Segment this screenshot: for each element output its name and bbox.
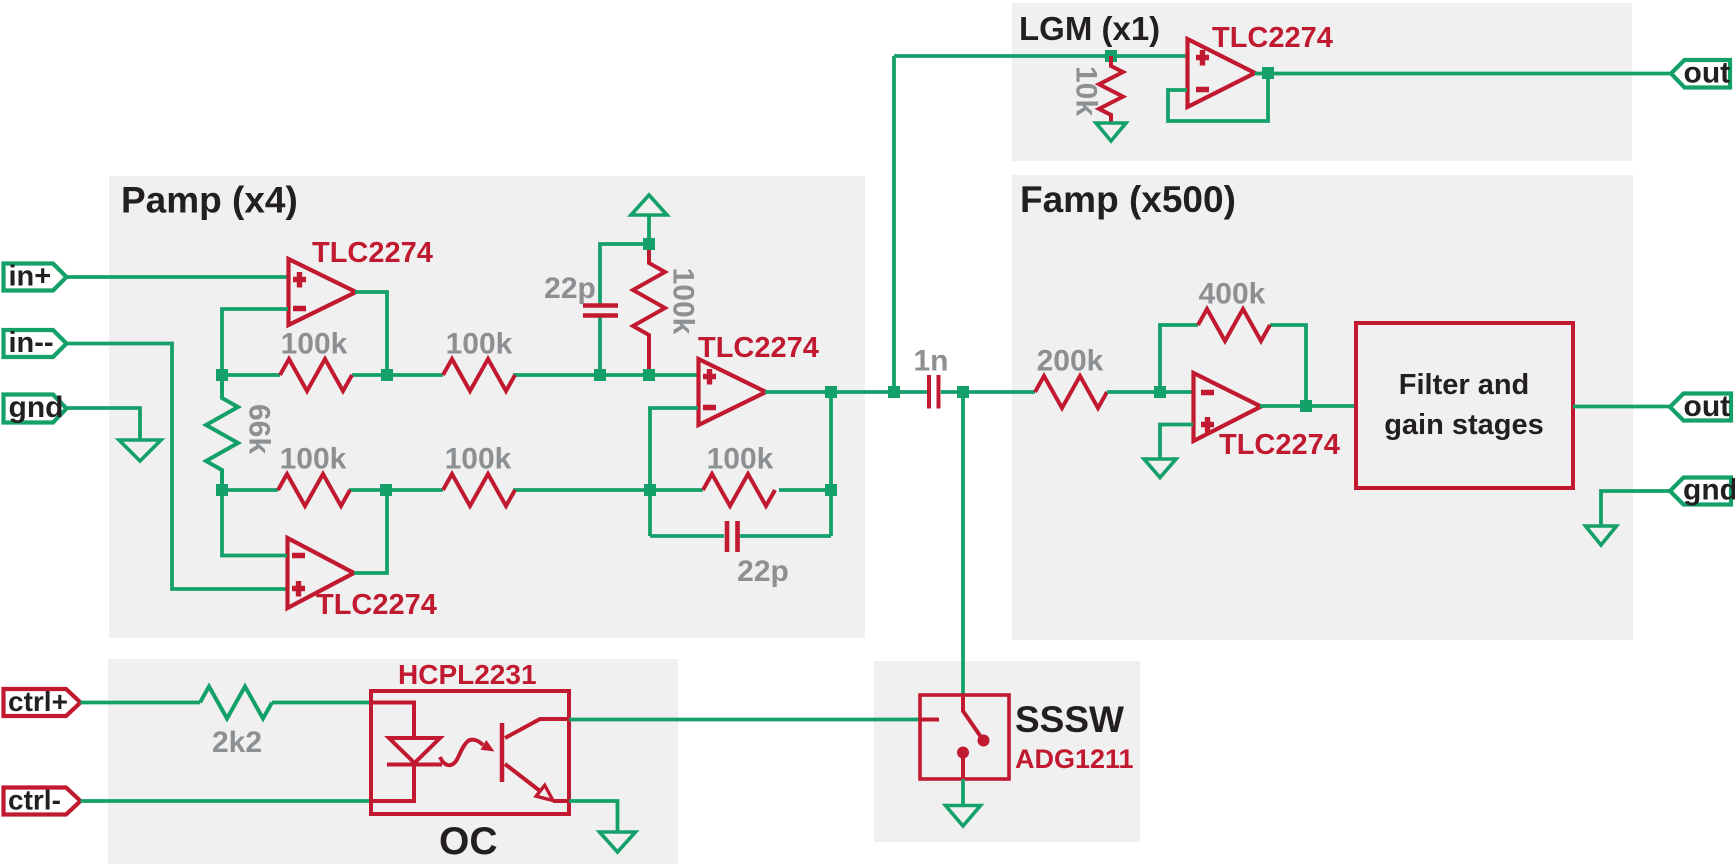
op-amp U1 TLC2274 (top) [289,259,357,325]
wire filter box to out port [1573,405,1670,409]
wire U4 feedback [1168,73,1268,121]
ground symbol (OC) [600,832,636,852]
resistor 400k [1198,309,1270,341]
svg-text:100k: 100k [667,268,700,335]
OC block background [108,659,678,864]
LGM block background [1012,3,1632,161]
junction top row / cap [594,369,606,381]
svg-text:HCPL2231: HCPL2231 [398,659,537,690]
svg-text:Famp (x500): Famp (x500) [1020,179,1236,220]
ground symbol (SSSW) [946,806,981,827]
ground symbol (U5) [1144,459,1176,478]
wire OC emitter to ground [569,801,618,833]
light arrow squiggle [440,740,495,766]
ground symbol (LGM) [1096,123,1126,141]
SSSW block background [874,661,1140,842]
op-amp U3 TLC2274 (bottom) [288,538,355,608]
svg-text:Pamp (x4): Pamp (x4) [121,180,298,221]
svg-text:ctrl+: ctrl+ [8,686,68,717]
op-amp U5 TLC2274 (Famp) [1194,373,1262,441]
junction after 1n [957,386,969,398]
wire ctrl- to OC [81,799,374,803]
svg-text:100k: 100k [445,443,512,476]
wire U5 output [1260,404,1356,408]
op-amp U4 TLC2274 (LGM) [1188,39,1256,107]
junction U2 output [825,386,837,398]
ground symbol (right gnd) [1586,526,1617,545]
Pamp block background [109,176,865,638]
wire gnd port to ground [67,408,141,441]
wire U2 - input [650,408,698,536]
junction top row / resistor [643,369,655,381]
switch contact dot (bottom) [957,747,969,759]
svg-text:100k: 100k [281,328,348,361]
switch SSSW box [920,695,1009,779]
Famp block background [1012,175,1633,640]
svg-text:100k: 100k [280,443,347,476]
wire U3 - input [222,490,287,556]
svg-text:in+: in+ [9,261,52,293]
junction feedback right [825,484,837,496]
filter and gain stages box [1356,323,1573,488]
capacitor 22p (vertical branch) [583,244,649,375]
svg-text:out: out [1684,57,1731,90]
resistor 66k (green, vertical) [206,375,238,490]
port out (right) [1670,390,1731,423]
resistor 100k (feedback) [703,474,775,506]
wire U2 output [765,390,927,394]
svg-text:66k: 66k [243,404,276,454]
svg-text:400k: 400k [1199,278,1266,311]
port ctrl- [4,785,81,816]
LED diode [387,738,442,765]
svg-text:2k2: 2k2 [212,726,262,759]
svg-text:200k: 200k [1037,345,1104,378]
svg-text:gain stages: gain stages [1384,409,1544,441]
ground symbol (left gnd port) [119,440,161,461]
supply arrow [631,195,667,215]
port in+ [4,261,67,293]
wire bottom row [222,488,831,492]
wire U1 - input [222,309,288,375]
wire in+ to U1 [67,275,289,279]
resistor 100k (bottom row right) [443,474,515,506]
svg-text:100k: 100k [707,443,774,476]
wire SSSW to ground [961,779,965,806]
wire U4 output to out port [1255,72,1671,76]
wire OC collector output to SSSW [569,718,921,722]
switch bottom lead [961,755,965,779]
Famp: wire feedback top [1160,325,1306,406]
wire ctrl+ to 2k2 [81,701,201,705]
LGM: wire input row [894,54,1187,58]
svg-text:ctrl-: ctrl- [8,785,61,816]
switch contact dot (arm) [978,735,990,747]
resistor 100k (bottom row left) [278,474,350,506]
svg-text:LGM (x1): LGM (x1) [1019,10,1160,47]
junction bottom row U3 out [380,484,392,496]
resistor 100k (vertical) [633,246,665,375]
wire gnd port to ground [1601,491,1670,526]
switch arm [963,696,981,737]
junction feedback left [644,484,656,496]
svg-text:10k: 10k [1070,66,1103,116]
wire LGM drop vertical [892,56,896,392]
optocoupler HCPL2231 box [371,691,569,814]
svg-text:gnd: gnd [9,391,64,424]
svg-text:TLC2274: TLC2274 [316,589,437,621]
junction supply tee [643,238,655,250]
junction main line / LGM drop [888,386,900,398]
wire U1 output [355,292,387,375]
wire SSSW drop vertical [961,392,965,695]
junction bottom row left [216,484,228,496]
port ctrl+ [4,686,81,717]
wire feedback right vertical [829,392,833,536]
svg-text:TLC2274: TLC2274 [698,332,819,364]
wire in-- to U3 + input [67,344,288,590]
wire U3 output [354,490,387,573]
svg-text:in--: in-- [9,327,54,359]
junction U4 output [1262,67,1274,79]
wire 2k2 to OC [272,701,373,705]
wire U5 + input to ground [1160,425,1193,460]
LED anode wire [371,703,414,739]
svg-text:gnd: gnd [1683,474,1735,507]
port out (top) [1671,57,1730,90]
port gnd left [4,391,67,424]
wire 200k to U5 [1107,390,1193,394]
svg-text:out: out [1684,390,1731,423]
port in-- [4,327,67,359]
resistor 2k2 (green) [200,687,272,719]
svg-text:1n: 1n [913,345,948,378]
junction top row left [216,369,228,381]
wire supply to junction [647,215,651,246]
junction LGM resistor tap [1105,50,1117,62]
junction top row U1 out [381,369,393,381]
svg-text:OC: OC [439,820,498,863]
switch input stub [921,718,939,722]
capacitor 1n [929,375,1035,409]
resistor 100k (top row right) [443,359,515,391]
svg-text:22p: 22p [544,272,596,305]
junction U5 output [1300,400,1312,412]
port gnd (right) [1670,474,1735,507]
svg-text:Filter and: Filter and [1399,369,1530,401]
resistor 10k [1099,56,1123,123]
junction Famp input [1154,386,1166,398]
svg-text:100k: 100k [446,328,513,361]
capacitor 22p (feedback) [650,521,831,552]
phototransistor [502,719,569,801]
svg-text:22p: 22p [737,555,789,588]
resistor 100k (top row left) [280,359,352,391]
svg-text:ADG1211: ADG1211 [1015,744,1134,774]
svg-text:TLC2274: TLC2274 [1219,429,1340,461]
LED cathode wire [371,764,414,801]
svg-text:TLC2274: TLC2274 [1212,22,1333,54]
svg-text:SSSW: SSSW [1015,699,1124,740]
op-amp U2 TLC2274 (right) [699,359,767,425]
svg-text:TLC2274: TLC2274 [312,237,433,269]
wire top row [222,373,698,377]
resistor 200k [1035,376,1107,408]
